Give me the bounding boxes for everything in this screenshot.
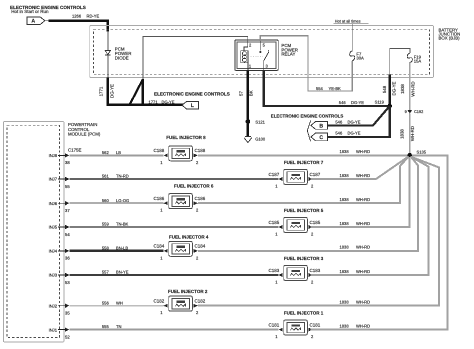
svg-text:FUEL INJECTOR 4: FUEL INJECTOR 4 <box>169 235 209 240</box>
svg-text:C185: C185 <box>310 220 321 225</box>
off-page connector B <box>311 122 328 130</box>
svg-text:C183: C183 <box>310 268 321 273</box>
svg-text:DG-YE: DG-YE <box>348 119 361 124</box>
svg-text:C184: C184 <box>195 244 206 249</box>
wire 548 feed and fuse F19 top link <box>390 49 410 75</box>
svg-text:55: 55 <box>65 184 70 189</box>
wire 1838 WH-RD from injector 3 to splice S135 <box>311 157 429 275</box>
svg-text:WH-RD: WH-RD <box>356 197 370 202</box>
wire 546 DG-YE to connector B <box>327 106 389 125</box>
PCM pin INJ3 (pin 53) <box>49 273 71 285</box>
svg-text:FUEL INJECTOR 1: FUEL INJECTOR 1 <box>284 310 324 315</box>
svg-text:WH-RD: WH-RD <box>356 173 370 178</box>
svg-text:YE-BK: YE-BK <box>329 86 342 91</box>
electronic engine controls label (mid) <box>149 91 230 104</box>
svg-text:1838: 1838 <box>340 173 350 178</box>
wire 546 DG-YE from relay pin 3 to splice S119 <box>264 70 390 106</box>
wire 1838 WH-RD from injector 5 to splice S135 <box>311 158 410 227</box>
ground G100 <box>244 136 266 142</box>
svg-text:C181: C181 <box>269 322 280 327</box>
PCM power relay K1 box <box>235 40 278 70</box>
svg-text:C175E: C175E <box>68 147 81 152</box>
svg-text:INJ4: INJ4 <box>49 249 58 254</box>
wire 561 TN-RD from PCM INJ7 to injector 7 <box>69 174 278 179</box>
svg-text:RELAY: RELAY <box>281 52 295 57</box>
wire from diode to relay coil pin 2 (in-box) <box>143 36 248 79</box>
PCM power diode label <box>115 47 132 61</box>
wire 1838 WH-RD from fuse F19 to connector C192 <box>400 63 416 110</box>
battery junction box label <box>439 27 461 40</box>
connector C185 labels and pins 1,2 <box>269 220 321 237</box>
svg-text:INJ3: INJ3 <box>49 273 58 278</box>
wire 1838 WH-RD from injector 7 to splice S135 <box>311 156 409 179</box>
svg-text:B: B <box>319 123 323 129</box>
fuel injector 5 (connector C185) <box>279 217 313 232</box>
relay mechanical link (dotted) <box>251 55 264 57</box>
svg-text:53: 53 <box>65 280 70 285</box>
svg-text:C192: C192 <box>414 109 423 114</box>
svg-text:WH-RD: WH-RD <box>356 245 370 250</box>
svg-text:INJ6: INJ6 <box>49 201 58 206</box>
svg-text:1838: 1838 <box>400 84 405 94</box>
svg-text:FUEL INJECTOR 5: FUEL INJECTOR 5 <box>284 208 324 213</box>
svg-text:BOX (BJB): BOX (BJB) <box>439 36 461 41</box>
svg-text:1771: 1771 <box>149 99 159 104</box>
header: electronic engine controls (hot in start or run) <box>10 5 86 14</box>
svg-text:57: 57 <box>239 91 244 96</box>
svg-text:TN: TN <box>116 324 122 329</box>
fuse F7 30A <box>350 51 364 61</box>
svg-text:WH-RD: WH-RD <box>356 323 370 328</box>
wire 548 DG-YE from BJB to splice S119 <box>382 75 397 106</box>
svg-text:C183: C183 <box>269 268 280 273</box>
wire 1266 RD-YE from connector A to PCM power diode <box>49 14 108 51</box>
svg-text:Hot at all times: Hot at all times <box>335 18 361 23</box>
svg-text:C181: C181 <box>310 322 321 327</box>
svg-text:C184: C184 <box>154 244 165 249</box>
wire 1771 DG-YE from diode to PCM (connector L) <box>99 78 183 105</box>
splice S119 <box>375 100 392 109</box>
svg-text:WH-RD: WH-RD <box>356 149 370 154</box>
connector C187 labels and pins 1,2 <box>269 172 321 189</box>
svg-text:1838: 1838 <box>340 245 350 250</box>
svg-text:MODULE (PCM): MODULE (PCM) <box>68 131 101 136</box>
svg-text:WH: WH <box>116 300 123 305</box>
svg-text:1838: 1838 <box>340 221 350 226</box>
fuel injector 4 (connector C184) <box>164 241 198 256</box>
svg-text:DG-YE: DG-YE <box>392 81 397 95</box>
wire 1838 WH-RD from injector 2 to splice S135 <box>198 157 439 306</box>
svg-text:WH-RD: WH-RD <box>356 221 370 226</box>
alternatives bracket <box>307 121 310 142</box>
fuel injector 7 (connector C187) <box>279 169 313 184</box>
powertrain control module label <box>68 122 101 136</box>
svg-text:546: 546 <box>335 131 343 136</box>
wire 1838 WH-RD from injector 1 to splice S135 <box>311 155 448 329</box>
wire 555 TN from PCM INJ1 to injector 1 <box>69 324 278 329</box>
svg-text:BK: BK <box>248 90 253 96</box>
svg-text:C: C <box>319 135 323 141</box>
svg-text:LG-OG: LG-OG <box>116 198 129 203</box>
svg-text:DIODE: DIODE <box>115 55 129 60</box>
in-line connector C192 pin 9 <box>405 109 424 114</box>
svg-text:INJ5: INJ5 <box>49 225 58 230</box>
svg-text:9: 9 <box>405 109 407 114</box>
svg-text:557: 557 <box>102 270 110 275</box>
PCM pin INJ7 (pin 55) <box>49 177 71 189</box>
svg-text:TN-RD: TN-RD <box>116 174 129 179</box>
svg-text:1266: 1266 <box>72 14 82 19</box>
connector C186 labels and pins 1,2 <box>154 196 206 213</box>
wire 1838 WH-RD from C192 to splice S135 <box>400 113 416 155</box>
svg-text:556: 556 <box>102 300 110 305</box>
svg-text:ELECTRONIC ENGINE CONTROLS: ELECTRONIC ENGINE CONTROLS <box>271 114 344 119</box>
connector C184 labels and pins 1,2 <box>154 244 206 261</box>
svg-text:52: 52 <box>65 334 70 339</box>
fuel injector 3 (connector C183) <box>279 265 313 280</box>
svg-text:C186: C186 <box>154 196 165 201</box>
svg-text:C187: C187 <box>310 172 321 177</box>
PCM pin INJ1 (pin 52) <box>49 327 71 339</box>
off-page connector L <box>182 101 199 109</box>
svg-text:WH-RD: WH-RD <box>410 126 415 141</box>
svg-text:BN-YE: BN-YE <box>116 270 129 275</box>
svg-text:S121: S121 <box>255 120 265 125</box>
svg-text:562: 562 <box>102 150 110 155</box>
svg-text:BN-LB: BN-LB <box>116 246 128 251</box>
PCM pin INJ4 (pin 36) <box>49 249 71 261</box>
svg-text:555: 555 <box>102 324 110 329</box>
svg-text:1838: 1838 <box>340 197 350 202</box>
connector C183 labels and pins 1,2 <box>269 268 321 285</box>
svg-text:558: 558 <box>102 246 110 251</box>
wire 558 BN-LB from PCM INJ4 to injector 4 <box>69 246 163 251</box>
svg-text:DG-YE: DG-YE <box>348 131 361 136</box>
svg-text:FUEL INJECTOR 7: FUEL INJECTOR 7 <box>284 160 324 165</box>
wire from hot bus to fuse F7 <box>351 24 353 51</box>
powertrain control module dashed outline <box>7 125 59 337</box>
svg-text:1838: 1838 <box>340 269 350 274</box>
splice S135 <box>407 149 427 157</box>
svg-text:FUEL INJECTOR 8: FUEL INJECTOR 8 <box>166 135 206 140</box>
svg-text:559: 559 <box>102 222 110 227</box>
svg-text:DG-YE: DG-YE <box>351 100 364 105</box>
svg-text:548: 548 <box>382 85 387 93</box>
connector C181 labels and pins 1,2 <box>269 322 321 339</box>
powertrain control module outer outline <box>3 122 64 343</box>
wire 562 LB from PCM INJ8 to injector 8 <box>69 150 163 155</box>
battery junction box dashed outline <box>94 30 430 75</box>
svg-text:ELECTRONIC ENGINE CONTROLS: ELECTRONIC ENGINE CONTROLS <box>154 91 230 96</box>
wire 560 LG-OG from PCM INJ6 to injector 6 <box>69 198 163 203</box>
svg-text:WH-RD: WH-RD <box>411 81 416 96</box>
svg-text:1838: 1838 <box>340 323 350 328</box>
PCM pin INJ2 (pin 35) <box>49 303 71 315</box>
svg-text:C188: C188 <box>195 148 206 153</box>
hot at all times bus label <box>334 18 369 23</box>
battery junction box outer outline <box>90 26 434 78</box>
svg-text:561: 561 <box>102 174 110 179</box>
svg-text:C187: C187 <box>269 172 280 177</box>
PCM power diode D1 <box>105 51 110 78</box>
splice S121 <box>246 119 266 124</box>
svg-text:1771: 1771 <box>99 86 104 96</box>
svg-text:INJ2: INJ2 <box>49 303 58 308</box>
svg-text:INJ8: INJ8 <box>49 153 58 158</box>
svg-text:560: 560 <box>102 198 110 203</box>
svg-text:554: 554 <box>316 86 324 91</box>
svg-text:36: 36 <box>65 256 70 261</box>
fuel injector 2 (connector C182) <box>164 296 198 311</box>
svg-text:G100: G100 <box>255 136 266 141</box>
wire 1838 WH-RD from injector 6 to splice S135 <box>198 157 409 204</box>
svg-text:30A: 30A <box>356 55 364 60</box>
connector C188 labels and pins 1,2 <box>154 148 206 165</box>
svg-text:C186: C186 <box>195 196 206 201</box>
svg-text:1838: 1838 <box>340 300 350 305</box>
svg-text:LB: LB <box>116 150 121 155</box>
svg-text:FUEL INJECTOR 3: FUEL INJECTOR 3 <box>284 256 324 261</box>
svg-text:C185: C185 <box>269 220 280 225</box>
svg-text:A: A <box>31 19 35 25</box>
wire 57 BK from relay pin 1 to ground <box>239 70 254 136</box>
fuel injector 1 (connector C181) <box>279 320 313 335</box>
svg-text:546: 546 <box>339 100 347 105</box>
svg-text:INJ7: INJ7 <box>49 177 58 182</box>
fuel injector 8 (connector C188) <box>164 146 198 161</box>
wire 1838 WH-RD from injector 4 to splice S135 <box>198 156 418 251</box>
svg-text:WH-RD: WH-RD <box>356 269 370 274</box>
svg-text:37: 37 <box>65 208 70 213</box>
fuel injector 6 (connector C186) <box>164 194 198 209</box>
wire 1838 WH-RD from injector 8 to splice S135 <box>198 149 407 155</box>
svg-text:S119: S119 <box>375 100 385 105</box>
svg-text:DG-YE: DG-YE <box>109 84 114 98</box>
PCM pin INJ6 (pin 37) <box>49 201 71 213</box>
fuse F19 15A <box>407 53 421 64</box>
svg-text:1838: 1838 <box>400 129 405 139</box>
svg-text:Hot in Start or Run: Hot in Start or Run <box>11 9 49 14</box>
svg-text:1838: 1838 <box>340 149 350 154</box>
off-page connector A <box>27 17 49 25</box>
svg-text:38: 38 <box>65 160 70 165</box>
wire 556 WH from PCM INJ2 to injector 2 <box>69 300 163 305</box>
PCM pin INJ8 (pin 38) <box>49 153 71 165</box>
svg-text:C188: C188 <box>154 148 165 153</box>
svg-text:DG-YE: DG-YE <box>162 99 175 104</box>
off-page connector C <box>311 133 328 141</box>
relay coil <box>241 41 248 70</box>
svg-text:546: 546 <box>335 119 343 124</box>
svg-text:RD-YE: RD-YE <box>87 14 100 19</box>
wire 557 BN-YE from PCM INJ3 to injector 3 <box>69 270 278 275</box>
relay switch blade and pin 3 <box>264 50 269 70</box>
svg-text:TN-BK: TN-BK <box>116 222 129 227</box>
connector C182 labels and pins 1,2 <box>154 299 206 316</box>
svg-text:INJ1: INJ1 <box>49 327 58 332</box>
svg-text:15A: 15A <box>414 59 422 64</box>
svg-text:S135: S135 <box>417 149 427 154</box>
svg-text:C182: C182 <box>195 299 206 304</box>
relay switch contact pin 5 <box>259 41 261 53</box>
svg-text:WH-RD: WH-RD <box>356 300 370 305</box>
svg-text:54: 54 <box>65 232 70 237</box>
svg-text:FUEL INJECTOR 2: FUEL INJECTOR 2 <box>168 289 208 294</box>
svg-text:35: 35 <box>65 311 70 316</box>
svg-text:C182: C182 <box>154 299 165 304</box>
wire 559 TN-BK from PCM INJ5 to injector 5 <box>69 222 278 227</box>
wire 546 DG-YE to connector C <box>327 106 389 137</box>
svg-text:FUEL INJECTOR 6: FUEL INJECTOR 6 <box>174 184 214 189</box>
PCM pin INJ5 (pin 54) <box>49 225 71 237</box>
PCM power relay label <box>281 43 298 56</box>
wire 554 YE-BK from fuse F7 to relay pin 5 <box>260 36 352 91</box>
